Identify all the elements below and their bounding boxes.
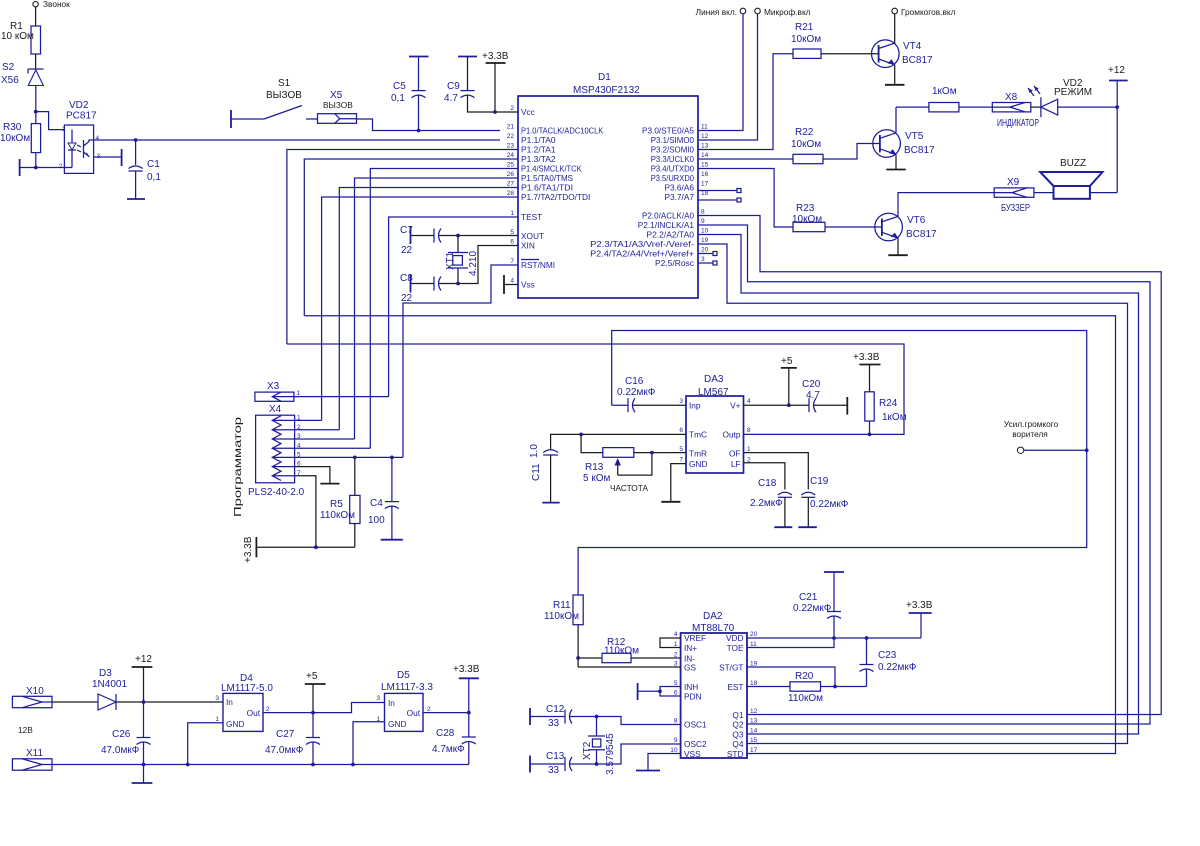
wire P3.4 to R23 xyxy=(698,169,793,228)
wire V+ to +5 node xyxy=(744,404,789,406)
svg-text:4.210: 4.210 xyxy=(468,251,479,276)
capacitor C21 xyxy=(793,572,844,638)
svg-text:X11: X11 xyxy=(26,748,43,759)
svg-text:4: 4 xyxy=(747,398,751,405)
node XOUT/XT1 junction xyxy=(456,234,460,238)
svg-text:Out: Out xyxy=(407,708,421,718)
svg-text:P1.4/SMCLK/TCK: P1.4/SMCLK/TCK xyxy=(521,164,582,174)
svg-text:12В: 12В xyxy=(18,725,33,735)
svg-text:12: 12 xyxy=(701,133,709,140)
capacitor C7 xyxy=(400,225,518,256)
wire P2.2 wrap to Q3 xyxy=(698,235,1139,735)
svg-text:+5: +5 xyxy=(306,671,318,682)
terminal Звонок xyxy=(33,0,70,9)
capacitor C13 xyxy=(530,751,597,776)
svg-text:+12: +12 xyxy=(135,654,152,665)
wire S1 to X5 xyxy=(306,118,318,120)
svg-text:2: 2 xyxy=(427,706,431,713)
svg-text:XIN: XIN xyxy=(521,241,535,251)
svg-text:EST: EST xyxy=(727,682,743,692)
svg-text:13: 13 xyxy=(750,718,758,725)
resistor R22 xyxy=(791,127,823,164)
svg-text:BC817: BC817 xyxy=(904,145,935,156)
svg-text:4: 4 xyxy=(510,278,514,285)
wire P1.4 to bus vertical xyxy=(370,169,518,449)
svg-text:27: 27 xyxy=(507,181,515,188)
pin stub P2.4 with open end xyxy=(698,252,717,256)
svg-text:C19: C19 xyxy=(810,476,829,487)
svg-text:GND: GND xyxy=(226,719,244,729)
svg-text:ворителя: ворителя xyxy=(1012,429,1048,439)
power +3.3В (PSU) xyxy=(453,664,480,713)
svg-text:BUZZ: BUZZ xyxy=(1060,158,1086,169)
power +3.3В (R24) xyxy=(853,352,881,392)
svg-text:3: 3 xyxy=(215,695,219,702)
power +5 (PSU) xyxy=(305,671,326,713)
power +5 (DA3) xyxy=(781,356,797,405)
wire X4 pin4 to bus xyxy=(295,447,371,449)
svg-text:BC817: BC817 xyxy=(902,55,933,66)
wire Микроф to P3.1 xyxy=(698,14,758,140)
svg-text:PDN: PDN xyxy=(684,692,702,702)
svg-text:P2.4/TA2/A4/Vref+/Veref+: P2.4/TA2/A4/Vref+/Veref+ xyxy=(590,249,694,259)
wire ST/GT down to EST row xyxy=(747,667,835,687)
op-amp D1 MSP430F2132 box xyxy=(518,72,698,298)
svg-text:P1.5/TA0/TMS: P1.5/TA0/TMS xyxy=(521,173,573,183)
svg-text:GND: GND xyxy=(388,719,406,729)
svg-text:LM1117-3.3: LM1117-3.3 xyxy=(381,682,433,693)
op-amp DA3 LM567 box xyxy=(679,374,751,473)
node C21/VDD junction xyxy=(832,636,836,640)
svg-text:14: 14 xyxy=(701,152,709,159)
svg-text:P2.5/Rosc: P2.5/Rosc xyxy=(655,258,694,268)
svg-text:R11: R11 xyxy=(553,600,571,611)
svg-text:S2: S2 xyxy=(2,62,15,73)
wire X4 pin1 to bus xyxy=(295,419,322,421)
connector X8 ИНДИКАТОР xyxy=(992,92,1039,129)
wire S2 to node xyxy=(35,86,37,112)
resistor R23 xyxy=(792,203,825,232)
svg-text:C27: C27 xyxy=(276,729,295,740)
svg-text:C16: C16 xyxy=(625,376,644,387)
svg-text:BC817: BC817 xyxy=(906,229,937,240)
ground rail left with bar xyxy=(20,159,65,176)
svg-text:R20: R20 xyxy=(795,671,814,682)
svg-text:1N4001: 1N4001 xyxy=(92,679,127,690)
svg-text:P1.7/TA2/TDO/TDI: P1.7/TA2/TDO/TDI xyxy=(521,192,590,202)
svg-text:ВЫЗОВ: ВЫЗОВ xyxy=(266,90,302,101)
transistor VT4 BC817 xyxy=(872,40,934,68)
resistor R5 xyxy=(320,457,360,547)
svg-text:9: 9 xyxy=(674,737,678,744)
node TmR/wiper junction xyxy=(650,451,654,455)
svg-text:Q2: Q2 xyxy=(732,720,743,730)
node C8/XT1 junction xyxy=(456,282,460,286)
svg-text:LM1117-5.0: LM1117-5.0 xyxy=(221,683,273,694)
svg-text:D1: D1 xyxy=(598,72,611,83)
svg-text:Усил.громкого: Усил.громкого xyxy=(1004,419,1059,429)
wire R23 to VT6 base xyxy=(825,226,882,228)
potentiometer R13 ЧАСТОТА xyxy=(581,434,686,493)
capacitor C8 xyxy=(400,273,458,304)
wire D5 GND to rail xyxy=(353,722,385,765)
voltage regulator D5 LM1117-3.3 xyxy=(376,670,433,731)
wire RST/NMI staircase to reset row xyxy=(403,265,518,457)
svg-text:13: 13 xyxy=(701,143,709,150)
wire C12 row to OSC1 xyxy=(597,717,681,725)
wire P1.6 to bus vertical xyxy=(339,188,518,430)
svg-text:C12: C12 xyxy=(546,704,565,715)
svg-text:10кОм: 10кОм xyxy=(791,34,821,45)
pin stub P3.7 with open end xyxy=(698,198,741,202)
INH/PDN loop with bar xyxy=(638,683,681,700)
wire XT1 to XIN xyxy=(458,246,518,284)
resistor 1кОм (LED series) xyxy=(896,86,959,112)
svg-text:33: 33 xyxy=(548,765,560,776)
svg-text:28: 28 xyxy=(507,190,515,197)
svg-text:8: 8 xyxy=(674,718,678,725)
svg-text:1: 1 xyxy=(747,446,751,453)
svg-text:Vcc: Vcc xyxy=(521,107,535,117)
node V+ junction xyxy=(787,403,791,407)
wire P1.3 to bus vertical xyxy=(304,159,518,316)
transistor VT6 BC817 xyxy=(875,213,937,241)
capacitor C23 xyxy=(860,638,917,687)
svg-text:Outp: Outp xyxy=(723,430,741,440)
power +3.3В (DA2) xyxy=(906,600,933,638)
power +3.3В rail (top) xyxy=(482,51,509,112)
node +3.3/X4 pin7 junction xyxy=(314,545,318,549)
wire D4 GND to rail xyxy=(188,723,223,765)
svg-text:4.7мкФ: 4.7мкФ xyxy=(432,744,465,755)
wire D5 Out to +3.3 node xyxy=(423,712,469,714)
connector X9 БУЗЗЕР xyxy=(994,177,1034,214)
svg-text:P3.7/A7: P3.7/A7 xyxy=(664,192,694,202)
transistor VT5 BC817 xyxy=(873,130,935,158)
svg-text:C28: C28 xyxy=(436,728,455,739)
svg-text:РЕЖИМ: РЕЖИМ xyxy=(1054,87,1092,98)
wire R1 to S2 xyxy=(35,54,37,69)
svg-text:P3.6/A6: P3.6/A6 xyxy=(664,183,694,193)
svg-text:OSC1: OSC1 xyxy=(684,720,707,730)
svg-text:2: 2 xyxy=(266,706,270,713)
svg-text:VD2: VD2 xyxy=(69,100,89,111)
svg-text:Микроф.вкл: Микроф.вкл xyxy=(764,7,811,17)
svg-text:24: 24 xyxy=(507,152,515,159)
wire opto pin3 to bar xyxy=(94,149,122,166)
wire LM567 Outp to P1.2 xyxy=(287,344,904,434)
svg-text:23: 23 xyxy=(507,143,515,150)
node ST-GT/R20 junction xyxy=(833,685,837,689)
wire P3.3 to R22 xyxy=(698,158,793,160)
svg-text:0,1: 0,1 xyxy=(147,172,161,183)
svg-text:3: 3 xyxy=(701,256,705,263)
svg-text:LM567: LM567 xyxy=(698,387,729,398)
node C12/XT2 junction xyxy=(595,715,599,719)
capacitor C26 xyxy=(101,702,151,765)
resistor R11 xyxy=(544,595,583,667)
svg-text:0.22мкФ: 0.22мкФ xyxy=(810,499,849,510)
svg-text:10кОм: 10кОм xyxy=(791,139,821,150)
wire X4 pin6 to ground xyxy=(295,467,340,484)
terminal Громкогов.вкл xyxy=(892,7,956,17)
D1 right pin names xyxy=(590,126,694,269)
wire VT5 emitter to ground xyxy=(886,155,906,170)
node +12/C26 junction xyxy=(142,700,146,704)
LED VD2 РЕЖИМ xyxy=(1028,78,1092,117)
svg-text:10 кОм: 10 кОм xyxy=(1,31,34,42)
wire Vcc xyxy=(495,111,518,113)
resistor R1 xyxy=(1,21,41,54)
svg-text:Звонок: Звонок xyxy=(43,0,70,9)
svg-text:LF: LF xyxy=(731,459,741,469)
svg-text:1кОм: 1кОм xyxy=(932,86,957,97)
svg-text:XT1: XT1 xyxy=(445,251,456,270)
svg-text:P3.5/URXD0: P3.5/URXD0 xyxy=(651,173,695,183)
svg-text:4: 4 xyxy=(96,135,100,142)
svg-text:GS: GS xyxy=(684,663,696,673)
node R5 top junction xyxy=(353,456,357,460)
svg-text:10кОм: 10кОм xyxy=(0,133,30,144)
capacitor C4 xyxy=(368,457,403,539)
wire opto pin2 (inside box to edge) xyxy=(64,167,72,169)
capacitor C18 xyxy=(750,478,792,527)
D1 right pin numbers xyxy=(701,124,709,264)
wire LED to +12 vertical xyxy=(1058,106,1118,108)
svg-text:PLS2-40-2.0: PLS2-40-2.0 xyxy=(248,487,305,498)
svg-text:C20: C20 xyxy=(802,379,821,390)
svg-text:VSS: VSS xyxy=(684,749,701,759)
wire X4 pin2 to bus xyxy=(295,429,340,431)
svg-text:MSP430F2132: MSP430F2132 xyxy=(573,85,640,96)
svg-text:20: 20 xyxy=(750,631,758,638)
node C27/rail junction xyxy=(311,763,315,767)
resistor R20 xyxy=(747,671,867,704)
svg-text:Q1: Q1 xyxy=(732,710,743,720)
svg-text:P2.0/ACLK/A0: P2.0/ACLK/A0 xyxy=(642,211,694,221)
svg-text:TmC: TmC xyxy=(689,430,707,440)
diode D3 1N4001 xyxy=(92,668,127,710)
capacitor C16 xyxy=(612,376,686,412)
svg-text:P1.2/TA1: P1.2/TA1 xyxy=(521,145,556,155)
svg-text:22: 22 xyxy=(507,133,515,140)
power +12 (PSU) xyxy=(132,654,153,702)
svg-text:0,1: 0,1 xyxy=(391,93,405,104)
svg-text:1.0: 1.0 xyxy=(529,444,540,458)
node +5/C27 junction xyxy=(311,711,315,715)
svg-text:7: 7 xyxy=(510,258,514,265)
svg-text:V+: V+ xyxy=(730,401,741,411)
svg-text:8: 8 xyxy=(747,427,751,434)
svg-text:22: 22 xyxy=(401,293,413,304)
connector X10 xyxy=(12,686,52,735)
svg-text:XOUT: XOUT xyxy=(521,231,544,241)
wire X5 to MCU P1.0 xyxy=(357,119,501,131)
wire VT6 collector up to X9 row xyxy=(898,193,994,217)
resistor R21 xyxy=(791,22,821,58)
svg-text:P1.1/TA0: P1.1/TA0 xyxy=(521,135,556,145)
pin stub P3.6 with open end xyxy=(698,189,741,193)
svg-text:ST/GT: ST/GT xyxy=(719,663,743,673)
wire X9 to speaker xyxy=(1034,192,1054,194)
svg-text:17: 17 xyxy=(701,181,709,188)
svg-text:5: 5 xyxy=(679,446,683,453)
svg-text:VREF: VREF xyxy=(684,633,706,643)
svg-text:P2.1/INCLK/A1: P2.1/INCLK/A1 xyxy=(638,220,695,230)
terminal Линия вкл. xyxy=(696,7,746,17)
svg-text:6: 6 xyxy=(510,239,514,246)
wire R21 to VT4 base xyxy=(821,53,879,55)
svg-text:X9: X9 xyxy=(1007,177,1020,188)
svg-text:20: 20 xyxy=(701,247,709,254)
svg-text:XT2: XT2 xyxy=(582,741,593,760)
wire VT4 emitter to ground xyxy=(885,65,905,85)
svg-text:+3.3В: +3.3В xyxy=(853,352,880,363)
svg-text:16: 16 xyxy=(701,171,709,178)
svg-text:25: 25 xyxy=(507,162,515,169)
svg-text:GND: GND xyxy=(689,459,707,469)
capacitor C11 xyxy=(529,434,686,502)
svg-text:7: 7 xyxy=(679,457,683,464)
svg-text:P3.1/SIMO0: P3.1/SIMO0 xyxy=(651,135,695,145)
node Vcc junction xyxy=(493,110,497,114)
wire opto pin4 long line to MCU P1.1 xyxy=(89,139,500,141)
optocoupler VD2 PC817 xyxy=(59,100,101,173)
resistor R30 xyxy=(0,112,41,168)
svg-text:TEST: TEST xyxy=(521,212,542,222)
op-amp DA2 MT88L70 box xyxy=(670,611,757,759)
node R24/Outp junction xyxy=(868,433,872,437)
wire X4 pin5 reset row xyxy=(295,456,403,458)
svg-text:DA2: DA2 xyxy=(703,611,723,622)
svg-text:VT4: VT4 xyxy=(903,41,922,52)
capacitor C9 xyxy=(444,57,495,113)
svg-text:C26: C26 xyxy=(112,729,131,740)
svg-text:VT6: VT6 xyxy=(907,215,926,226)
capacitor C19 xyxy=(798,476,848,527)
svg-text:3: 3 xyxy=(376,695,380,702)
wire X4 pin3 to bus xyxy=(295,438,355,440)
wire P2.1 wrap to Q2 xyxy=(698,225,1150,724)
wire Звонок to R1 xyxy=(35,7,37,26)
svg-text:26: 26 xyxy=(507,171,515,178)
svg-text:Программатор: Программатор xyxy=(233,416,244,517)
svg-text:22: 22 xyxy=(401,245,413,256)
svg-text:C21: C21 xyxy=(799,592,818,603)
connector X3 xyxy=(255,381,301,401)
wire X8 to LED xyxy=(1031,106,1041,108)
resistor R24 xyxy=(865,392,907,435)
voltage regulator D4 LM1117-5.0 xyxy=(215,673,273,731)
capacitor C27 xyxy=(265,713,320,765)
svg-text:S1: S1 xyxy=(278,78,291,89)
svg-text:X3: X3 xyxy=(267,381,280,392)
ground DA3 GND xyxy=(661,464,686,502)
node D5 GND/rail junction xyxy=(351,763,355,767)
capacitor C5 xyxy=(391,57,429,131)
svg-text:C1: C1 xyxy=(147,159,160,170)
svg-text:In: In xyxy=(388,698,395,708)
node C26/rail junction xyxy=(142,763,146,767)
svg-text:11: 11 xyxy=(701,124,708,131)
svg-text:P1.3/TA2: P1.3/TA2 xyxy=(521,154,556,164)
svg-text:6: 6 xyxy=(679,427,683,434)
svg-text:R30: R30 xyxy=(3,122,22,133)
wire audio node to C16 and R11 xyxy=(578,331,1087,596)
node TmC/R13 junction xyxy=(579,433,583,437)
node C1 junction xyxy=(134,138,138,142)
wire ground rail X11 to C28 xyxy=(52,764,469,766)
svg-text:C18: C18 xyxy=(758,478,777,489)
wire P3.2 to R21 xyxy=(698,54,793,150)
svg-text:0.22мкФ: 0.22мкФ xyxy=(793,603,832,614)
svg-text:P3.0/STE0/A5: P3.0/STE0/A5 xyxy=(642,126,694,136)
wire 1кОм to X8 xyxy=(959,106,992,108)
wire D4 Out to +5 node xyxy=(263,712,313,714)
svg-text:P1.0/TACLK/ADC10CLK: P1.0/TACLK/ADC10CLK xyxy=(521,126,604,136)
wire GS to node xyxy=(578,666,681,668)
svg-text:INH: INH xyxy=(684,682,698,692)
svg-text:ВЫЗОВ: ВЫЗОВ xyxy=(323,100,353,110)
svg-text:110кОм: 110кОм xyxy=(320,510,355,521)
wire P2.0 wrap to Q1 xyxy=(698,216,1161,715)
wire Линия to P3.0 xyxy=(698,14,743,131)
svg-text:33: 33 xyxy=(548,718,560,729)
svg-text:IN+: IN+ xyxy=(684,643,697,653)
svg-text:Q3: Q3 xyxy=(732,730,743,740)
wire VT5 collector up to LED row xyxy=(895,107,897,133)
svg-text:In: In xyxy=(226,697,233,707)
svg-text:C11: C11 xyxy=(531,463,542,481)
svg-text:R5: R5 xyxy=(330,499,343,510)
svg-text:12: 12 xyxy=(750,708,758,715)
svg-text:100: 100 xyxy=(368,515,385,526)
svg-text:БУЗЗЕР: БУЗЗЕР xyxy=(1001,203,1030,214)
wire LF to C18 xyxy=(744,463,785,490)
svg-text:TOE: TOE xyxy=(727,643,744,653)
svg-text:15: 15 xyxy=(750,737,758,744)
svg-text:+3.3В: +3.3В xyxy=(482,51,509,62)
wire Громкогов to VT4 collector xyxy=(894,14,896,44)
svg-text:P3.2/SOMI0: P3.2/SOMI0 xyxy=(651,145,695,155)
capacitor C28 xyxy=(432,713,476,765)
svg-text:ЧАСТОТА: ЧАСТОТА xyxy=(610,483,649,493)
svg-text:19: 19 xyxy=(701,237,709,244)
node C4 top junction xyxy=(390,456,394,460)
svg-text:15: 15 xyxy=(701,162,709,169)
node +3.3/C28 junction xyxy=(467,711,471,715)
pin stub P2.5 with open end xyxy=(698,261,717,265)
svg-text:OF: OF xyxy=(729,449,741,459)
wire OF to C19 xyxy=(744,453,809,490)
svg-text:P1.6/TA1/TDI: P1.6/TA1/TDI xyxy=(521,183,573,193)
svg-text:2: 2 xyxy=(510,105,514,112)
wire +5 row to D5 In xyxy=(313,703,385,713)
svg-text:2: 2 xyxy=(59,163,63,170)
svg-text:47.0мкФ: 47.0мкФ xyxy=(101,745,140,756)
svg-text:47.0мкФ: 47.0мкФ xyxy=(265,745,304,756)
svg-text:10кОм: 10кОм xyxy=(792,214,822,225)
svg-text:X10: X10 xyxy=(26,686,44,697)
svg-text:+3.3В: +3.3В xyxy=(243,536,254,563)
svg-text:1: 1 xyxy=(215,716,219,723)
wire C13 row to OSC2 xyxy=(597,744,681,764)
svg-text:RST/NMI: RST/NMI xyxy=(521,260,555,270)
svg-text:R23: R23 xyxy=(796,203,815,214)
wire P1.2 to bus vertical xyxy=(287,150,518,345)
svg-text:Линия вкл.: Линия вкл. xyxy=(696,7,737,17)
wire VT6 emitter to ground xyxy=(888,238,908,255)
